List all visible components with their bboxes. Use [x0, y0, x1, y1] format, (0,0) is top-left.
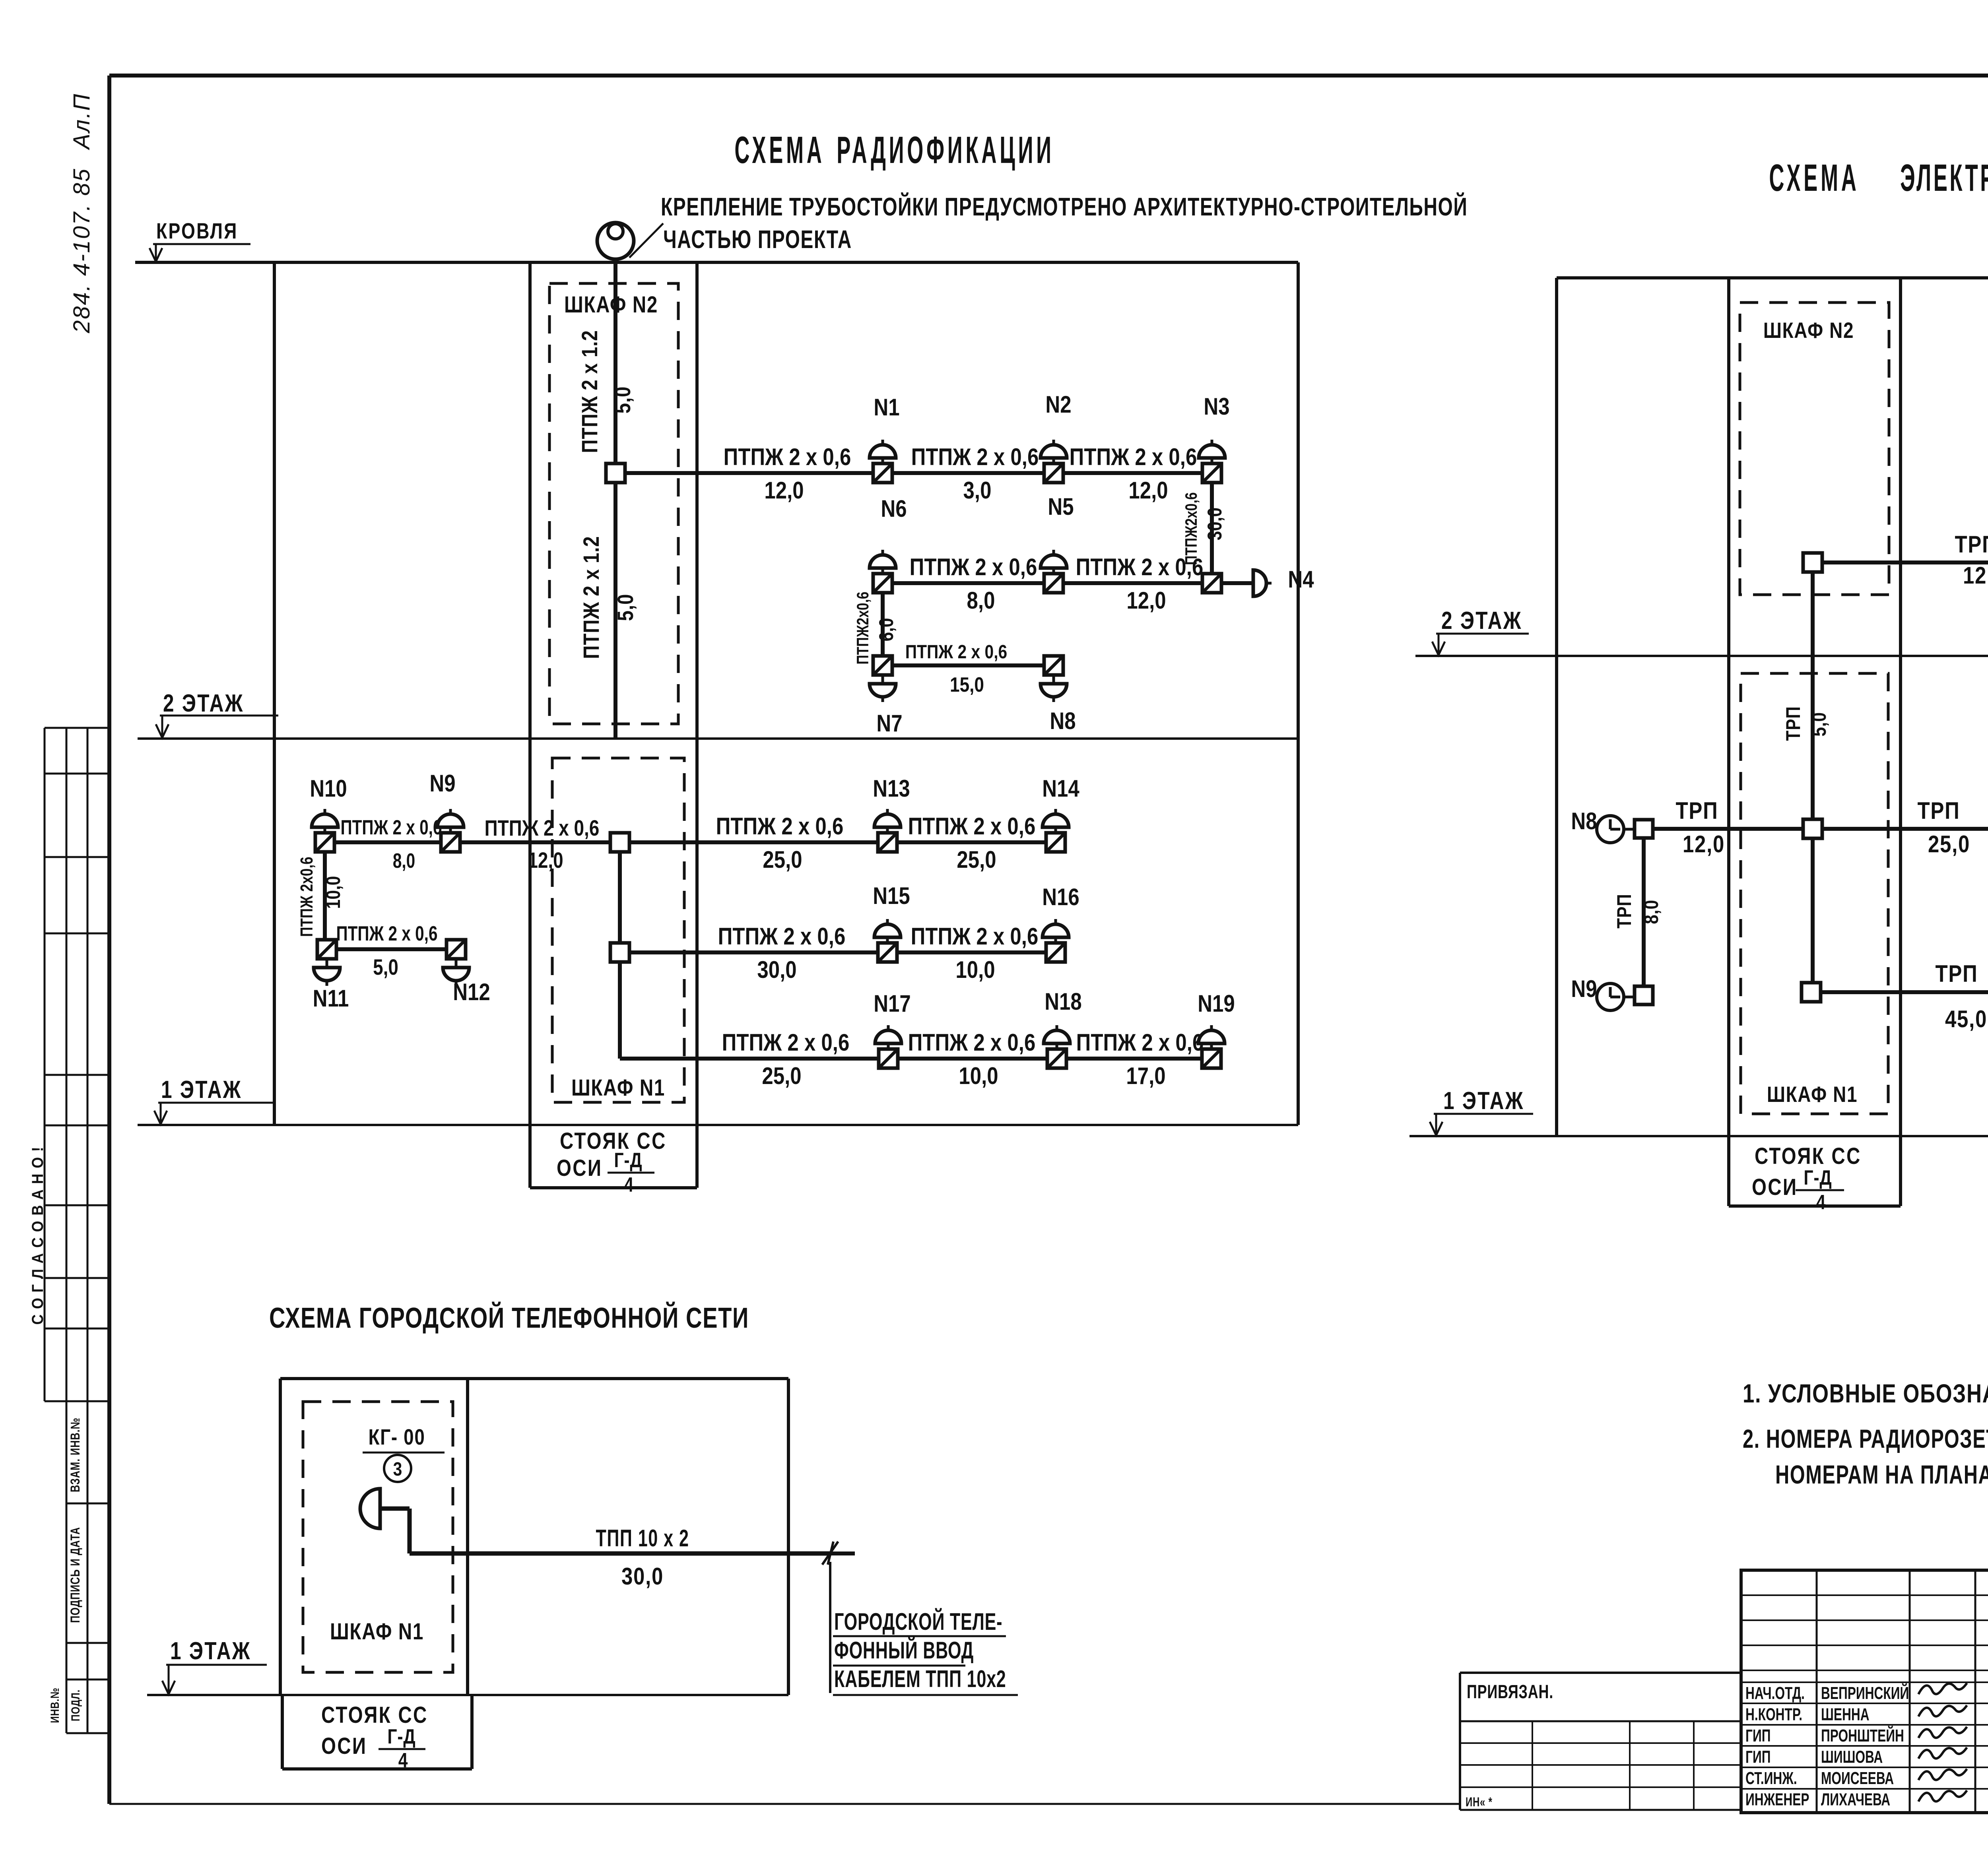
secondary clock N9 [1597, 983, 1624, 1010]
privyazan columns [1532, 1721, 1533, 1810]
svg-text:ОСИ: ОСИ [1752, 1175, 1798, 1200]
svg-text:2. НОМЕРА РАДИОРОЗЕТОК И ЭЛЕКТ: 2. НОМЕРА РАДИОРОЗЕТОК И ЭЛЕКТРОЧАСОВ НА… [1743, 1424, 1988, 1454]
svg-text:ГОРОДСКОЙ ТЕЛЕ-: ГОРОДСКОЙ ТЕЛЕ- [834, 1608, 1002, 1635]
svg-text:N12: N12 [453, 979, 490, 1005]
svg-text:4: 4 [398, 1749, 408, 1772]
svg-text:8,0: 8,0 [393, 849, 415, 872]
svg-text:N8: N8 [1050, 708, 1076, 734]
tel cable TPP 10x2 [410, 1551, 830, 1556]
clock stoyak box bottom [1729, 1204, 1901, 1208]
svg-text:N14: N14 [1042, 775, 1079, 802]
riser wire antenna to shkaf2 box [613, 259, 617, 464]
svg-text:СТОЯК СС: СТОЯК СС [321, 1703, 428, 1728]
svg-text:ШКАФ N2: ШКАФ N2 [564, 292, 658, 318]
svg-text:ШКАФ N2: ШКАФ N2 [1763, 318, 1854, 343]
radio socket N10 [324, 827, 326, 833]
svg-text:ПТПЖ2х0,6: ПТПЖ2х0,6 [854, 591, 872, 664]
tel inner wall [466, 1379, 469, 1695]
svg-text:N2: N2 [1045, 391, 1071, 418]
svg-text:15,0: 15,0 [950, 673, 984, 696]
svg-text:17,0: 17,0 [1126, 1063, 1165, 1089]
svg-text:8,0: 8,0 [967, 587, 995, 614]
junction box shkaf N1 row2 [610, 943, 629, 962]
svg-text:3: 3 [393, 1459, 402, 1480]
radio shaft wall left [528, 262, 532, 1188]
svg-text:12,0: 12,0 [1963, 562, 1988, 589]
svg-text:НОМЕРАМ НА ПЛАНАХ.: НОМЕРАМ НА ПЛАНАХ. [1775, 1460, 1988, 1489]
svg-text:ПТПЖ 2 х 0,6: ПТПЖ 2 х 0,6 [1076, 554, 1204, 580]
svg-text:ТРП: ТРП [1936, 960, 1978, 987]
side stamp table lower [66, 1401, 68, 1733]
svg-text:ШЕННА: ШЕННА [1821, 1705, 1870, 1724]
clock floor line 1 etazh [1409, 1135, 1988, 1137]
svg-text:КАБЕЛЕМ ТПП 10х2: КАБЕЛЕМ ТПП 10х2 [834, 1666, 1006, 1693]
svg-text:ПТПЖ 2 х 0,6: ПТПЖ 2 х 0,6 [718, 923, 846, 950]
radio building right wall [1297, 262, 1300, 1125]
svg-text:6,0: 6,0 [875, 618, 897, 641]
svg-text:1 ЭТАЖ: 1 ЭТАЖ [161, 1076, 242, 1103]
svg-text:ПТПЖ 2 х 1.2: ПТПЖ 2 х 1.2 [577, 330, 602, 453]
radio socket N12 inverted [455, 959, 458, 968]
title block signature rows [1741, 1681, 1988, 1683]
svg-text:N16: N16 [1042, 884, 1079, 910]
title block verticals left part [1816, 1570, 1818, 1813]
radio building outline roof [135, 261, 1298, 264]
svg-text:10,0: 10,0 [959, 1063, 998, 1089]
shkaf N1 clock dashed box [1741, 673, 1888, 1114]
radio socket N13 [886, 827, 889, 833]
radio socket N15 [886, 937, 889, 943]
svg-text:ШИШОВА: ШИШОВА [1821, 1747, 1883, 1767]
svg-text:НАЧ.ОТД.: НАЧ.ОТД. [1745, 1683, 1805, 1703]
shkaf N2 clock dashed box [1740, 303, 1889, 595]
svg-text:ИНВ.№: ИНВ.№ [48, 1687, 61, 1723]
svg-text:ПТПЖ 2 х 0,6: ПТПЖ 2 х 0,6 [716, 813, 844, 840]
svg-text:30,0: 30,0 [1204, 508, 1226, 541]
junction box shkaf N2 radio [606, 463, 625, 483]
shkaf N1 tel dashed box [303, 1402, 453, 1672]
secondary clock N8 [1597, 816, 1624, 843]
svg-text:30,0: 30,0 [757, 956, 796, 983]
wire 1fl N10 to shaft [325, 840, 611, 844]
svg-text:ФОННЫЙ ВВОД: ФОННЫЙ ВВОД [834, 1637, 974, 1664]
svg-text:25,0: 25,0 [957, 846, 996, 873]
svg-text:Н.КОНТР.: Н.КОНТР. [1745, 1705, 1802, 1724]
radio socket N14 [1054, 827, 1057, 833]
svg-text:ПТПЖ 2 х 0,6: ПТПЖ 2 х 0,6 [485, 816, 600, 840]
svg-text:12,0: 12,0 [764, 477, 804, 504]
svg-text:ОСИ: ОСИ [557, 1156, 602, 1181]
svg-text:ТРП: ТРП [1918, 797, 1960, 824]
clock building left wall [1555, 278, 1558, 1136]
radio socket N19 [1210, 1043, 1213, 1049]
svg-text:ПТПЖ 2 х 0,6: ПТПЖ 2 х 0,6 [905, 642, 1007, 663]
signatures squiggles [1918, 1683, 1967, 1694]
svg-text:ПТПЖ 2 х 0,6: ПТПЖ 2 х 0,6 [911, 923, 1039, 950]
svg-text:N13: N13 [873, 775, 910, 802]
riser wire shaft floor1 [618, 852, 622, 943]
radio floor line 2 etazh [138, 737, 1298, 740]
wire drop N8 to N9 [1642, 838, 1646, 986]
clock building top [1557, 276, 1988, 279]
svg-text:4: 4 [1816, 1191, 1826, 1214]
svg-text:ПОДЛ.: ПОДЛ. [68, 1689, 82, 1721]
wire stub to N4 [1221, 581, 1253, 585]
side stamp table upper [45, 727, 109, 729]
svg-text:30,0: 30,0 [621, 1563, 664, 1590]
circle 3 callout [384, 1455, 411, 1482]
svg-text:ПОДПИСЬ И ДАТА: ПОДПИСЬ И ДАТА [68, 1527, 82, 1623]
svg-text:ПТПЖ 2 х 0,6: ПТПЖ 2 х 0,6 [908, 1029, 1036, 1056]
svg-text:N8: N8 [1571, 808, 1597, 834]
svg-text:ТПП 10 х 2: ТПП 10 х 2 [596, 1525, 689, 1552]
svg-text:КРЕПЛЕНИЕ ТРУБОСТОЙКИ ПРЕДУСМО: КРЕПЛЕНИЕ ТРУБОСТОЙКИ ПРЕДУСМОТРЕНО АРХИ… [661, 192, 1468, 221]
privyazan table frame [1460, 1672, 1741, 1674]
svg-text:ЛИХАЧЕВА: ЛИХАЧЕВА [1821, 1790, 1890, 1809]
svg-text:ТРП: ТРП [1676, 797, 1718, 824]
radio stoyak box bottom [530, 1186, 697, 1189]
svg-text:5,0: 5,0 [610, 386, 635, 414]
svg-text:ТРП: ТРП [1782, 706, 1804, 741]
clock floor line 2 etazh [1415, 655, 1988, 657]
svg-text:N7: N7 [876, 710, 902, 737]
svg-text:ПТПЖ 2 х 0,6: ПТПЖ 2 х 0,6 [1070, 444, 1197, 470]
svg-text:ПТПЖ 2х0,6: ПТПЖ 2х0,6 [297, 857, 316, 937]
svg-text:N4: N4 [1288, 566, 1314, 593]
svg-text:КРОВЛЯ: КРОВЛЯ [156, 218, 238, 243]
junction box clock shaft 1fl [1803, 819, 1822, 838]
wire row3 N7 to N8 [883, 663, 1054, 667]
svg-text:Г-Д: Г-Д [614, 1149, 642, 1172]
svg-text:8,0: 8,0 [1640, 900, 1662, 924]
wire TRP 12.0 main 2fl [1822, 560, 1988, 564]
svg-text:ВЗАМ. ИНВ.№: ВЗАМ. ИНВ.№ [68, 1418, 82, 1492]
svg-text:ПТПЖ 2 х 1.2: ПТПЖ 2 х 1.2 [579, 536, 604, 659]
svg-text:25,0: 25,0 [762, 1063, 801, 1089]
svg-text:ТРП: ТРП [1955, 531, 1988, 558]
svg-text:Г-Д: Г-Д [1804, 1166, 1832, 1189]
shkaf N2 radio dashed box [549, 283, 678, 724]
svg-text:2 ЭТАЖ: 2 ЭТАЖ [163, 689, 244, 717]
svg-text:N17: N17 [874, 990, 911, 1017]
svg-text:N18: N18 [1044, 988, 1082, 1015]
radio socket N7 inverted [881, 675, 884, 684]
svg-text:СТОЯК СС: СТОЯК СС [560, 1129, 667, 1154]
svg-text:12,0: 12,0 [1128, 477, 1168, 504]
svg-text:3,0: 3,0 [963, 477, 992, 504]
shkaf N1 radio dashed box [552, 758, 684, 1102]
svg-text:12,0: 12,0 [528, 848, 563, 873]
svg-text:5,0: 5,0 [613, 594, 638, 621]
junction box clock shaft lower [1802, 983, 1821, 1002]
svg-text:Ал.П: Ал.П [69, 93, 95, 150]
svg-text:N15: N15 [873, 882, 910, 909]
svg-text:ТРП: ТРП [1613, 894, 1635, 928]
svg-text:1 ЭТАЖ: 1 ЭТАЖ [1443, 1087, 1524, 1115]
junction box shkaf N1 row1 [610, 833, 629, 852]
svg-text:ОСИ: ОСИ [321, 1734, 367, 1759]
svg-text:ПТПЖ 2 х 0,6: ПТПЖ 2 х 0,6 [908, 813, 1036, 840]
svg-text:СТОЯК СС: СТОЯК СС [1755, 1144, 1862, 1169]
title block frame [1741, 1570, 1988, 1813]
cable end mark [822, 1542, 838, 1565]
wire drop N3 to row2 [1210, 483, 1214, 574]
svg-text:ГИП: ГИП [1745, 1747, 1771, 1767]
svg-text:ШКАФ N1: ШКАФ N1 [1767, 1082, 1858, 1107]
svg-text:КГ- 00: КГ- 00 [369, 1425, 425, 1449]
svg-text:ПРОНШТЕЙН: ПРОНШТЕЙН [1821, 1725, 1904, 1746]
svg-text:ЭЛЕКТРОЧАСОФИКАЦИИ: ЭЛЕКТРОЧАСОФИКАЦИИ [1900, 157, 1988, 199]
svg-text:ИНЖЕНЕР: ИНЖЕНЕР [1745, 1790, 1809, 1809]
privyazan rows [1460, 1720, 1741, 1722]
radio floor line 1 etazh [138, 1124, 1298, 1126]
svg-text:ПТПЖ 2 х 0,6: ПТПЖ 2 х 0,6 [722, 1029, 850, 1056]
clock shaft wall left [1727, 278, 1730, 1206]
svg-text:ШКАФ N1: ШКАФ N1 [330, 1619, 424, 1645]
riser wire shkaf2 to floor [613, 483, 617, 739]
wire 2fl main shkaf2 to N3 [625, 471, 1212, 475]
svg-text:45,0: 45,0 [1945, 1006, 1987, 1032]
svg-text:5,0: 5,0 [373, 955, 398, 979]
svg-text:Г-Д: Г-Д [387, 1725, 415, 1748]
svg-text:ШКАФ N1: ШКАФ N1 [571, 1075, 665, 1101]
svg-text:25,0: 25,0 [763, 846, 802, 873]
svg-text:ВЕПРИНСКИЙ: ВЕПРИНСКИЙ [1821, 1683, 1909, 1703]
radio socket N16 [1054, 937, 1057, 943]
svg-text:МОИСЕЕВА: МОИСЕЕВА [1821, 1769, 1894, 1788]
wire row3 corner to N19 [620, 1057, 1211, 1061]
svg-text:ЧАСТЬЮ ПРОЕКТА: ЧАСТЬЮ ПРОЕКТА [663, 225, 852, 253]
svg-text:2 ЭТАЖ: 2 ЭТАЖ [1441, 607, 1522, 634]
svg-text:ГИП: ГИП [1745, 1726, 1771, 1745]
wire TRP 45.0 [1821, 990, 1988, 994]
tel floor line 1 etazh [147, 1694, 788, 1696]
svg-text:N11: N11 [313, 985, 349, 1012]
svg-text:N3: N3 [1204, 393, 1229, 420]
radio shaft wall right [695, 262, 699, 1188]
radio socket N1 [881, 458, 884, 463]
wire row2 N6 to corner [883, 581, 1212, 585]
svg-text:12,0: 12,0 [1683, 831, 1725, 857]
radio socket N6 [881, 568, 884, 574]
svg-text:СХЕМА: СХЕМА [1769, 157, 1859, 199]
svg-text:284. 4-107. 85: 284. 4-107. 85 [69, 168, 95, 334]
title block upper rows [1741, 1594, 1988, 1596]
radio socket N11 inverted [326, 959, 328, 968]
junction box shkaf N2 clock [1803, 553, 1822, 572]
svg-text:ИН« *: ИН« * [1466, 1795, 1493, 1809]
svg-text:ПТПЖ 2 х 0,6: ПТПЖ 2 х 0,6 [340, 816, 442, 839]
radio socket N18 [1056, 1043, 1058, 1049]
tel stoyak box [281, 1695, 284, 1769]
svg-text:N10: N10 [310, 775, 347, 802]
limiter box under N3 drop [1202, 574, 1221, 593]
svg-text:ПТПЖ 2 х 0,6: ПТПЖ 2 х 0,6 [911, 444, 1039, 470]
radio socket N17 [887, 1043, 890, 1049]
svg-text:РАДИОФИКАЦИИ: РАДИОФИКАЦИИ [837, 129, 1054, 171]
svg-text:N5: N5 [1048, 493, 1074, 520]
telephone cabinet symbol [360, 1489, 380, 1528]
riser wire clock between boxes [1811, 838, 1815, 983]
svg-text:10,0: 10,0 [322, 876, 344, 909]
svg-text:1. УСЛОВНЫЕ ОБОЗНАЧЕНИЯ СМ.: 1. УСЛОВНЫЕ ОБОЗНАЧЕНИЯ СМ. ЛИСТ 1. [1743, 1379, 1988, 1408]
radio socket N9 [449, 827, 452, 833]
svg-text:N1: N1 [874, 394, 899, 421]
wire drop N6 to row3 [881, 593, 885, 656]
wire 1fl clock main [1653, 827, 1988, 831]
sheet border frame [109, 74, 1988, 78]
svg-text:1 ЭТАЖ: 1 ЭТАЖ [170, 1637, 251, 1665]
svg-text:ПТПЖ 2 х 0,6: ПТПЖ 2 х 0,6 [724, 444, 851, 470]
svg-text:ПТПЖ 2 х 0,6: ПТПЖ 2 х 0,6 [1076, 1029, 1204, 1056]
svg-text:4: 4 [624, 1173, 634, 1197]
riser wire to row3 corner [618, 962, 622, 1059]
leader line to note [629, 223, 663, 258]
svg-text:СХЕМА: СХЕМА [734, 129, 825, 171]
svg-text:ПРИВЯЗАН.: ПРИВЯЗАН. [1467, 1681, 1553, 1702]
svg-text:С О Г Л А С О В А Н О !: С О Г Л А С О В А Н О ! [29, 1146, 47, 1325]
svg-text:N6: N6 [881, 495, 907, 522]
radio socket N5 [1052, 568, 1055, 574]
radio socket N8 inverted [1052, 675, 1055, 684]
wire drop to gorodskoy vvod [829, 1562, 831, 1693]
riser wire clock down [1811, 572, 1815, 818]
wire row2 shaft to N16 [629, 950, 1056, 954]
svg-text:ПТПЖ 2 х 0,6: ПТПЖ 2 х 0,6 [336, 922, 437, 945]
svg-text:5,0: 5,0 [1808, 712, 1830, 737]
svg-text:12,0: 12,0 [1126, 587, 1166, 614]
svg-text:СТ.ИНЖ.: СТ.ИНЖ. [1745, 1769, 1797, 1788]
svg-text:СХЕМА ГОРОДСКОЙ ТЕЛЕФОННОЙ СЕТ: СХЕМА ГОРОДСКОЙ ТЕЛЕФОННОЙ СЕТИ [269, 1301, 749, 1334]
wire drop N10 to N11 [323, 852, 327, 940]
radio socket N2 [1052, 458, 1055, 463]
antenna mast trubostoyka [597, 223, 634, 259]
svg-text:ПТПЖ 2 х 0,6: ПТПЖ 2 х 0,6 [910, 554, 1037, 580]
svg-text:N9: N9 [429, 770, 455, 797]
wire phone symbol to cable [380, 1507, 410, 1511]
wire row1 shaft to N14 [629, 840, 1056, 844]
tel building box [280, 1377, 788, 1380]
svg-text:10,0: 10,0 [955, 956, 995, 983]
clock shaft wall right [1899, 278, 1902, 1206]
radio socket N4 sideways [1253, 570, 1266, 596]
svg-text:25,0: 25,0 [1928, 831, 1970, 857]
wire N11 to N12 [327, 947, 456, 951]
radio building left wall [273, 262, 276, 1125]
svg-text:N19: N19 [1198, 990, 1235, 1017]
svg-text:N9: N9 [1571, 975, 1597, 1002]
radio socket N3 [1211, 458, 1213, 463]
